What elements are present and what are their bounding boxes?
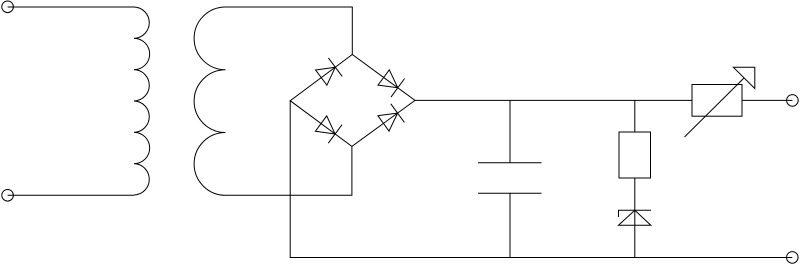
wire — [226, 146, 352, 195]
wire — [634, 178, 636, 258]
zener diode D5 — [619, 210, 652, 225]
terminal J1 (top-left input) — [2, 1, 14, 13]
resistor R1 — [619, 132, 651, 178]
wire — [8, 6, 134, 8]
terminal J4 (bottom-right output) — [787, 252, 799, 264]
wire — [509, 100, 511, 162]
wire — [8, 194, 134, 196]
terminal J2 (bottom-left input) — [2, 190, 14, 202]
diode D4 — [378, 104, 405, 131]
wire (positive rail) — [415, 99, 692, 101]
wire — [226, 7, 353, 55]
transformer primary winding L1 — [134, 7, 150, 195]
diode D1 — [316, 58, 343, 85]
capacitor C1 — [478, 163, 542, 194]
wire — [509, 193, 511, 257]
wire (negative rail down and bottom rail) — [290, 101, 792, 258]
terminal J3 (top-right output) — [787, 95, 799, 107]
wire (bridge diamond) — [290, 55, 415, 147]
diode D2 — [378, 70, 405, 97]
transformer secondary winding L2 — [194, 7, 225, 195]
wire — [634, 100, 636, 132]
wire — [742, 99, 792, 101]
diode D3 — [315, 116, 342, 143]
rheostat R2 — [685, 67, 755, 137]
